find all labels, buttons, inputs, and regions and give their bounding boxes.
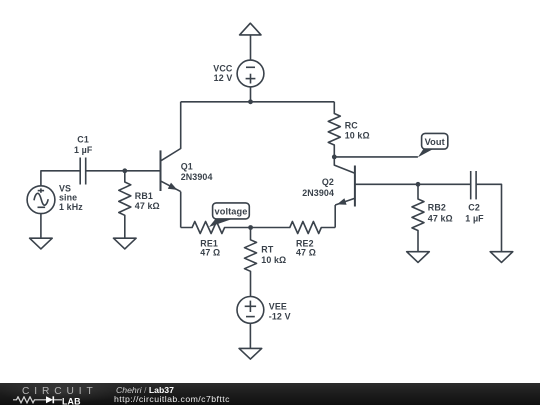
- label RB1 47 kOhm: [135, 191, 160, 211]
- label RE1 47 Ohm: [200, 238, 220, 257]
- label VS sine 1 kHz: [59, 184, 83, 212]
- label C2 1uF: [465, 202, 484, 223]
- svg-text:voltage: voltage: [214, 207, 247, 217]
- svg-text:Q2: Q2: [322, 177, 334, 187]
- svg-text:2N3904: 2N3904: [302, 188, 334, 198]
- svg-text:RB2: RB2: [428, 202, 446, 212]
- wire top rail: [181, 101, 335, 103]
- wire Q1 emitter down: [180, 192, 182, 228]
- junction dot RC bottom: [332, 155, 337, 160]
- wire Q2 emitter down to RE2: [334, 205, 336, 228]
- resistor RB2: [412, 184, 424, 251]
- ground under RB2: [407, 252, 430, 263]
- label VCC 12 V: [213, 63, 233, 83]
- wire Q1 collector riser: [161, 102, 181, 161]
- svg-text:VCC: VCC: [213, 63, 233, 73]
- wire RC node to Vout: [334, 156, 418, 158]
- footer title Chehri / Lab37: [116, 385, 174, 395]
- label RC 10 kOhm: [345, 121, 370, 141]
- svg-text:1 kHz: 1 kHz: [59, 202, 83, 212]
- VCC supply flag (up triangle): [240, 23, 261, 35]
- svg-text:12 V: 12 V: [214, 73, 233, 83]
- wire C1 to Q1 base: [86, 170, 161, 172]
- wire VEE to ground: [249, 323, 251, 348]
- wire VCC flag to VCC source: [250, 35, 252, 60]
- label RE2 47 Ohm: [296, 238, 316, 257]
- wire VCC source to rail: [250, 87, 252, 102]
- svg-text:2N3904: 2N3904: [181, 172, 213, 182]
- junction dot VCC-rail: [248, 99, 253, 104]
- svg-text:RC: RC: [345, 121, 359, 131]
- logo resistor-diode glyph and LAB: [13, 396, 98, 405]
- resistor RT: [245, 228, 257, 297]
- label RB2 47 kOhm: [428, 202, 453, 223]
- svg-text:VEE: VEE: [269, 302, 287, 312]
- svg-text:Vout: Vout: [425, 137, 445, 147]
- label C1 1uF: [74, 134, 93, 155]
- wire Q2 base to C2: [355, 183, 471, 185]
- ground under VS: [30, 238, 53, 249]
- junction dot RB1 tap: [122, 168, 127, 173]
- wire VS to ground: [40, 214, 42, 239]
- svg-text:1 µF: 1 µF: [465, 213, 484, 223]
- label VEE -12 V: [269, 302, 291, 322]
- svg-text:10 kΩ: 10 kΩ: [261, 255, 286, 265]
- footer url: [114, 394, 230, 404]
- svg-text:C2: C2: [468, 202, 480, 212]
- junction dot RB2 tap: [416, 182, 421, 187]
- wire VS to C1: [41, 171, 80, 186]
- svg-text:-12 V: -12 V: [269, 311, 291, 321]
- transistor Q2 2N3904 (mirrored): [334, 157, 355, 207]
- label Q1 2N3904: [181, 162, 213, 182]
- svg-text:47 Ω: 47 Ω: [296, 248, 316, 258]
- resistor RE1: [181, 222, 251, 234]
- ground right of C2: [490, 252, 513, 263]
- capacitor C1: [80, 158, 86, 185]
- svg-text:47 Ω: 47 Ω: [200, 248, 220, 258]
- svg-text:LAB: LAB: [62, 397, 81, 405]
- svg-text:47 kΩ: 47 kΩ: [428, 213, 453, 223]
- label Q2 2N3904: [302, 177, 334, 198]
- svg-text:10 kΩ: 10 kΩ: [345, 131, 370, 141]
- voltage source VCC: [237, 60, 264, 87]
- resistor RE2: [251, 222, 336, 234]
- resistor RC: [328, 102, 340, 157]
- label RT 10 kOhm: [261, 245, 286, 265]
- CircuitLab footer bar: [0, 383, 540, 405]
- logo CIRCUIT: [22, 387, 98, 397]
- svg-text:Q1: Q1: [181, 162, 193, 172]
- flag Vout: [418, 133, 448, 157]
- voltage source VEE: [237, 297, 264, 324]
- flag voltage: [209, 203, 249, 227]
- junction dot RE1/RE2/RT: [248, 225, 253, 230]
- wire C2 to right ground: [476, 184, 501, 251]
- capacitor C2: [471, 171, 476, 199]
- transistor Q1 2N3904: [161, 150, 181, 191]
- svg-text:1 µF: 1 µF: [74, 145, 93, 155]
- svg-text:C1: C1: [77, 134, 89, 144]
- voltage source VS (sine): [27, 186, 55, 214]
- ground under VEE: [239, 348, 262, 359]
- svg-text:RB1: RB1: [135, 191, 153, 201]
- svg-text:RT: RT: [261, 245, 274, 255]
- resistor RB1: [119, 171, 131, 238]
- ground under RB1: [114, 238, 137, 249]
- svg-text:47 kΩ: 47 kΩ: [135, 201, 160, 211]
